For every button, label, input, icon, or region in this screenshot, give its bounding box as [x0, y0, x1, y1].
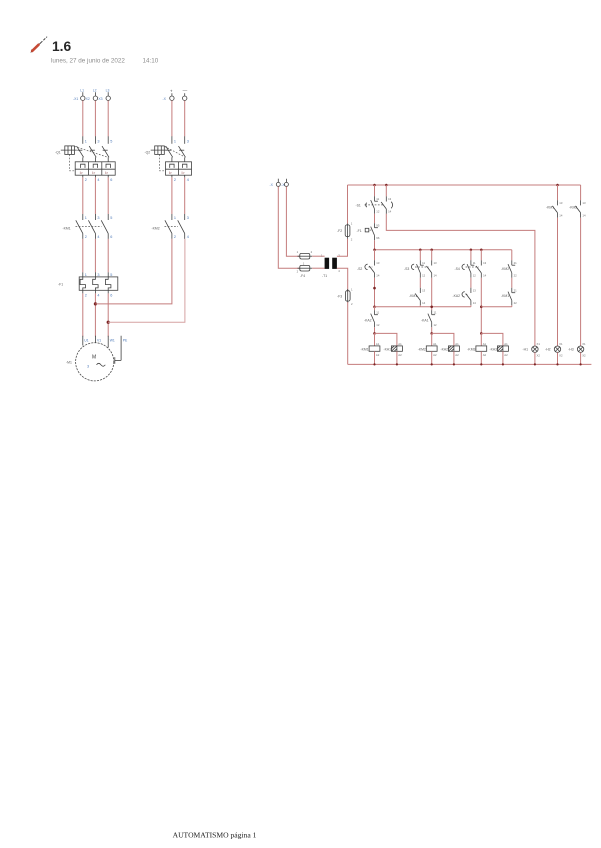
F1 pole 1	[80, 272, 87, 297]
header pen icon	[31, 37, 47, 53]
svg-text:12: 12	[376, 323, 380, 327]
link row wire A	[375, 306, 471, 308]
node inner rail c2	[430, 249, 433, 252]
svg-text:4: 4	[187, 178, 189, 182]
svg-text:14: 14	[422, 301, 426, 305]
Q2 trip box	[166, 162, 192, 182]
KM1 pole 2	[88, 214, 99, 239]
node bottom rail ka2	[453, 363, 455, 365]
wire fuse F4 to transformer	[312, 255, 325, 257]
node bottom rail h3	[580, 363, 582, 365]
node bottom rail km3	[480, 363, 482, 365]
stop button S1 NC pole	[356, 196, 384, 214]
wire b1 to inner rail	[374, 240, 376, 250]
svg-text:-X: -X	[270, 183, 274, 187]
svg-text:I>: I>	[80, 171, 83, 175]
node b1 at link row	[373, 306, 376, 309]
wire transformer secondary top	[337, 239, 348, 256]
svg-text:-KM2: -KM2	[418, 347, 426, 351]
svg-text:-KM1: -KM1	[501, 294, 509, 298]
svg-text:95: 95	[376, 224, 380, 228]
svg-text:2: 2	[351, 238, 353, 242]
Q1 pole 1	[77, 136, 87, 162]
svg-text:lunes, 27 de junio de 2022: lunes, 27 de junio de 2022	[51, 58, 125, 65]
svg-text:2: 2	[174, 235, 176, 239]
svg-text:5: 5	[110, 139, 112, 143]
svg-text:2: 2	[311, 250, 313, 254]
svg-text:X2: X2	[86, 97, 90, 101]
svg-text:I>: I>	[92, 171, 95, 175]
wire + top	[171, 101, 173, 137]
svg-text:13: 13	[434, 261, 438, 265]
svg-text:1: 1	[321, 254, 323, 258]
wire L1 mid	[82, 177, 84, 214]
node inner rail b1	[373, 249, 376, 252]
svg-text:X2: X2	[559, 354, 563, 358]
svg-text:-KA1: -KA1	[421, 318, 429, 322]
button S4 NO pole	[476, 250, 487, 278]
wire from -X6 down	[286, 187, 299, 257]
KM1 pole 1	[76, 214, 87, 239]
svg-text:-KM1: -KM1	[63, 226, 71, 230]
svg-text:-F1: -F1	[357, 229, 362, 233]
svg-text:-H2: -H2	[545, 347, 551, 351]
svg-text:13: 13	[582, 201, 586, 205]
svg-text:1: 1	[297, 250, 299, 254]
wire transformer secondary bottom	[337, 268, 348, 291]
wire b1 below S2	[374, 278, 376, 307]
fuse F2 control top	[337, 221, 353, 241]
wire c2 down	[431, 278, 433, 310]
svg-text:-F1: -F1	[58, 283, 63, 287]
svg-text:12: 12	[434, 323, 438, 327]
wire e bottom corner	[511, 305, 513, 307]
svg-text:5: 5	[110, 216, 112, 220]
svg-text:AUTOMATISMO página 1: AUTOMATISMO página 1	[173, 831, 257, 840]
Q1 trip box	[75, 162, 115, 182]
terminal -X4 +	[163, 89, 175, 101]
node d2 at link row	[480, 306, 483, 309]
node inner rail d2	[480, 249, 483, 252]
svg-text:4: 4	[338, 269, 340, 273]
motor terminal W1	[108, 336, 115, 348]
wire L2 mid	[94, 177, 96, 214]
interlock KA1 NC on c2	[421, 310, 437, 333]
node bottom rail h2	[556, 363, 558, 365]
svg-text:W1: W1	[110, 338, 115, 342]
button S3 NC pole	[404, 250, 429, 278]
node coil row d2	[480, 332, 483, 335]
wire to lamp H3	[580, 218, 582, 346]
stop button S1 NO pole	[381, 185, 393, 214]
svg-text:11: 11	[376, 197, 379, 201]
node inner rail d1	[470, 249, 473, 252]
svg-text:L2: L2	[93, 89, 97, 93]
svg-text:-S3: -S3	[404, 267, 409, 271]
fuse F3 control bottom	[337, 287, 353, 306]
transformer T1	[321, 254, 340, 279]
interlock KM1 NC	[501, 288, 517, 306]
svg-text:X1: X1	[537, 342, 541, 346]
button S3 NO pole	[427, 250, 438, 278]
breaker Q2	[145, 146, 185, 171]
svg-text:I>: I>	[105, 171, 108, 175]
wire b1 from rail	[374, 185, 376, 196]
node W1 junction	[107, 321, 110, 324]
svg-text:3: 3	[97, 216, 99, 220]
svg-text:2: 2	[351, 302, 353, 306]
svg-text:-M1: -M1	[66, 361, 72, 365]
svg-text:1: 1	[85, 273, 87, 277]
svg-text:22: 22	[514, 301, 518, 305]
svg-text:1: 1	[351, 221, 353, 225]
fuse F4 primary top	[297, 250, 313, 259]
Q1 pole 3	[102, 136, 112, 162]
svg-text:11: 11	[376, 311, 379, 315]
node inner rail c1	[419, 249, 422, 252]
F1 pole 2	[93, 272, 100, 297]
svg-text:-F3: -F3	[337, 295, 342, 299]
svg-text:12: 12	[422, 274, 426, 278]
svg-text:-X: -X	[163, 97, 167, 101]
coil KM1	[361, 333, 380, 364]
contactor KM1	[63, 226, 102, 230]
wire d2 down	[480, 278, 482, 334]
svg-text:A2: A2	[455, 353, 459, 357]
svg-text:14: 14	[434, 274, 438, 278]
svg-text:13: 13	[473, 289, 477, 293]
svg-text:-X1: -X1	[73, 97, 78, 101]
overload relay F1	[58, 277, 118, 290]
svg-text:-T1: -T1	[322, 274, 327, 278]
inner rail	[375, 249, 512, 251]
svg-text:-F2: -F2	[337, 229, 342, 233]
svg-text:I>: I>	[169, 171, 172, 175]
svg-text:-Q2: -Q2	[145, 151, 151, 155]
svg-text:-F4: -F4	[300, 274, 305, 278]
svg-text:-KM2: -KM2	[501, 267, 509, 271]
motor M1	[66, 343, 114, 381]
svg-text:-KA2: -KA2	[453, 294, 461, 298]
motor terminal PE	[115, 336, 128, 364]
coil KM3	[467, 333, 486, 364]
wire - mid	[184, 177, 186, 214]
motor terminal V1	[95, 336, 101, 343]
svg-text:14: 14	[388, 210, 392, 214]
wire b2 to lamp H1	[386, 214, 535, 346]
svg-text:3: 3	[97, 139, 99, 143]
node bottom rail km1	[373, 363, 375, 365]
interlock KA2 NC on b1	[364, 307, 380, 334]
svg-text:I>: I>	[182, 171, 185, 175]
Q1 pole 2	[89, 136, 99, 162]
svg-text:-S1: -S1	[356, 203, 361, 207]
svg-text:A2: A2	[504, 353, 508, 357]
wire V1 to KM2 pole1	[95, 239, 171, 304]
terminal -X5	[270, 179, 281, 187]
svg-text:X2: X2	[537, 354, 541, 358]
svg-text:M: M	[92, 355, 96, 361]
svg-text:2: 2	[85, 293, 87, 297]
wire L3 mid	[107, 177, 109, 214]
breaker Q1	[55, 146, 108, 171]
svg-text:4: 4	[97, 235, 99, 239]
coil KM2	[418, 333, 437, 364]
svg-text:5: 5	[110, 273, 112, 277]
bottom rail	[348, 363, 592, 365]
svg-text:-KA3: -KA3	[490, 347, 498, 351]
overload contact F1 95-96	[357, 214, 380, 241]
wire from -X5 down	[278, 187, 300, 269]
lamp H2	[545, 342, 563, 364]
svg-text:-S2: -S2	[357, 267, 362, 271]
wire W1 to KM2 pole2	[108, 239, 185, 322]
terminal -X3	[98, 89, 110, 101]
link row wire B	[481, 306, 512, 308]
svg-text:1: 1	[85, 139, 87, 143]
F1 pole 3	[106, 272, 113, 297]
svg-text:-S4: -S4	[455, 267, 460, 271]
node top rail b1	[373, 184, 376, 187]
svg-text:X1: X1	[582, 342, 586, 346]
svg-text:14:10: 14:10	[143, 58, 159, 65]
start button S2	[357, 250, 380, 278]
svg-text:-Q1: -Q1	[55, 151, 61, 155]
top rail	[348, 184, 581, 186]
wire L2 lower	[94, 239, 96, 272]
svg-text:4: 4	[187, 235, 189, 239]
svg-text:4: 4	[97, 293, 99, 297]
wire F2 to top rail	[347, 185, 349, 224]
svg-text:3: 3	[187, 139, 189, 143]
svg-text:13: 13	[559, 201, 563, 205]
node coil row c2	[430, 332, 433, 335]
terminal -X6	[281, 179, 288, 187]
svg-text:13: 13	[376, 261, 380, 265]
svg-text:-KM3: -KM3	[467, 347, 475, 351]
aux contact KM2 for H3	[569, 185, 586, 218]
svg-text:-H3: -H3	[568, 347, 574, 351]
svg-text:V1: V1	[97, 338, 101, 342]
svg-text:14: 14	[559, 214, 563, 218]
node coil row b1	[373, 332, 376, 335]
svg-text:2: 2	[297, 269, 299, 273]
svg-text:-KA2: -KA2	[364, 318, 372, 322]
svg-text:-KM1: -KM1	[361, 347, 369, 351]
wire W1 to motor	[107, 293, 109, 336]
svg-text:1: 1	[351, 287, 353, 291]
wire L1 top	[82, 101, 84, 137]
node bottom rail km2	[431, 363, 433, 365]
wire F3 to bottom rail	[347, 302, 349, 364]
svg-text:X3: X3	[98, 97, 102, 101]
svg-text:1: 1	[174, 139, 176, 143]
wire fuse F5 to transformer	[312, 267, 325, 269]
svg-text:14: 14	[582, 214, 586, 218]
svg-text:A2: A2	[398, 353, 402, 357]
wire V1 to motor	[94, 293, 96, 336]
svg-text:11: 11	[422, 261, 425, 265]
wire to lamp H2	[557, 218, 559, 346]
svg-text:21: 21	[514, 289, 518, 293]
svg-text:4: 4	[97, 178, 99, 182]
svg-text:PE: PE	[123, 338, 128, 342]
fuse F5 primary bottom	[297, 262, 313, 279]
node bottom rail h1	[534, 363, 536, 365]
node bottom rail ka1	[396, 363, 398, 365]
wire L3 lower	[107, 239, 109, 272]
svg-text:A2: A2	[433, 353, 437, 357]
terminal -X2	[86, 89, 98, 101]
node V1 junction	[94, 302, 97, 305]
lamp H1	[523, 342, 541, 364]
svg-text:A1: A1	[398, 342, 402, 346]
svg-text:L3: L3	[106, 89, 110, 93]
svg-text:13: 13	[483, 261, 487, 265]
interlock chain top wire	[511, 250, 513, 260]
wire e mid	[511, 278, 513, 288]
svg-text:96: 96	[376, 236, 380, 240]
svg-text:A1: A1	[433, 342, 437, 346]
svg-text:+: +	[170, 89, 173, 94]
Q2 pole 1	[166, 136, 176, 162]
svg-text:A1: A1	[483, 342, 487, 346]
svg-text:11: 11	[434, 311, 437, 315]
terminal -X1	[73, 89, 85, 101]
svg-text:X1: X1	[559, 342, 563, 346]
node top rail lamp2	[556, 184, 559, 187]
svg-text:13: 13	[422, 289, 426, 293]
motor terminal U1	[83, 336, 89, 346]
svg-text:13: 13	[388, 197, 392, 201]
contact KA2 on d1	[453, 278, 477, 307]
svg-text:3: 3	[97, 273, 99, 277]
svg-text:3: 3	[338, 254, 340, 258]
svg-text:-KA2: -KA2	[441, 347, 449, 351]
svg-text:22: 22	[514, 274, 518, 278]
aux contact KM1 for H2	[546, 185, 563, 218]
svg-text:6: 6	[110, 178, 112, 182]
coil KA3	[481, 333, 508, 364]
svg-text:6: 6	[110, 235, 112, 239]
svg-text:2: 2	[85, 235, 87, 239]
svg-text:3: 3	[87, 364, 89, 368]
wire + mid	[171, 177, 173, 214]
wire L1 lower	[82, 239, 84, 272]
svg-text:3: 3	[187, 216, 189, 220]
svg-text:A1: A1	[504, 342, 508, 346]
KM1 pole 3	[101, 214, 112, 239]
wire L2 top	[94, 101, 96, 137]
svg-text:-KM2: -KM2	[152, 226, 160, 230]
aux contact KM1 13-14	[409, 278, 426, 307]
svg-text:A2: A2	[376, 353, 380, 357]
svg-text:14: 14	[483, 274, 487, 278]
wire L3 top	[107, 101, 109, 137]
node bottom rail ka3	[502, 363, 504, 365]
svg-text:A2: A2	[483, 353, 487, 357]
node b1 mid	[373, 287, 376, 290]
Q2 pole 2	[179, 136, 189, 162]
svg-text:1: 1	[174, 216, 176, 220]
svg-text:11: 11	[473, 261, 476, 265]
svg-text:14: 14	[473, 301, 477, 305]
svg-text:1: 1	[85, 216, 87, 220]
svg-text:L1: L1	[80, 89, 84, 93]
node top rail b2	[385, 184, 388, 187]
svg-text:-H1: -H1	[523, 347, 529, 351]
svg-text:14: 14	[376, 274, 380, 278]
svg-text:A1: A1	[376, 342, 380, 346]
interlock KM2 NC	[501, 260, 517, 278]
svg-text:A1: A1	[455, 342, 459, 346]
button S4 NC pole	[455, 250, 480, 278]
svg-text:U1: U1	[84, 338, 88, 342]
svg-text:12: 12	[376, 210, 380, 214]
KM2 pole 2	[178, 214, 189, 239]
svg-text:-KA1: -KA1	[384, 347, 392, 351]
terminal -X5 -	[183, 88, 188, 100]
wire U1 to motor	[82, 293, 84, 336]
node c2 at link row	[430, 306, 433, 309]
svg-text:6: 6	[110, 293, 112, 297]
svg-text:21: 21	[514, 261, 518, 265]
coil KA1	[375, 333, 403, 364]
svg-text:X2: X2	[582, 354, 586, 358]
svg-text:1.6: 1.6	[52, 39, 72, 54]
contactor KM2	[152, 226, 179, 230]
svg-text:—: —	[183, 88, 188, 93]
svg-text:2: 2	[174, 178, 176, 182]
svg-text:2: 2	[85, 178, 87, 182]
KM2 pole 1	[165, 214, 176, 239]
svg-text:12: 12	[473, 274, 477, 278]
coil KA2	[432, 333, 460, 364]
wire - top	[184, 101, 186, 137]
lamp H3	[568, 342, 586, 364]
